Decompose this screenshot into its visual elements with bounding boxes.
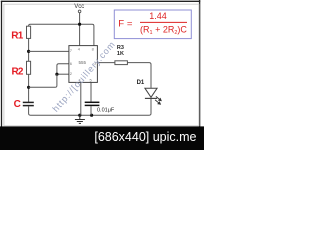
- wire pin4 drop: [79, 24, 81, 45]
- node pin2 junction: [55, 73, 58, 76]
- svg-text:R3: R3: [117, 45, 124, 51]
- svg-text:R1: R1: [11, 31, 23, 42]
- outer dark frame top: [1, 0, 200, 2]
- formula box: [114, 10, 191, 39]
- node ground junction: [78, 114, 81, 117]
- formula fraction bar: [140, 21, 187, 23]
- LED D1: [145, 88, 157, 98]
- sheet border: [4, 4, 199, 126]
- wire C bottom to ground rail: [29, 99, 151, 116]
- resistor R1: [27, 26, 31, 38]
- capacitor C3 0.01uF: [85, 102, 100, 105]
- svg-text:Vcc: Vcc: [74, 4, 84, 10]
- wire pin2 to R2-C junction: [29, 74, 57, 87]
- svg-text:1.44: 1.44: [149, 11, 167, 21]
- wire pin6 bracket: [57, 64, 69, 74]
- capacitor C: [23, 102, 34, 105]
- outer dark frame left: [1, 1, 3, 127]
- svg-text:D1: D1: [137, 80, 145, 86]
- LED arrows: [155, 96, 161, 104]
- resistor R3: [115, 61, 128, 65]
- resistor R2: [27, 61, 31, 74]
- wire R1-R2: [28, 38, 30, 61]
- ground: [75, 115, 85, 123]
- svg-text:C: C: [14, 99, 21, 110]
- svg-text:(R1 + 2R2)C: (R1 + 2R2)C: [140, 25, 187, 37]
- wire R3 to LED: [127, 63, 151, 88]
- op-amp U1 555 IC box: [69, 46, 98, 83]
- node Vcc junction: [78, 23, 81, 26]
- wire pin5 to cap: [90, 82, 92, 101]
- wire R2-C: [28, 74, 30, 102]
- node R1-R2 junction: [27, 50, 30, 53]
- wire Vcc stem: [79, 13, 81, 25]
- svg-text:R2: R2: [12, 67, 24, 78]
- svg-text:555: 555: [79, 60, 87, 65]
- wire cap to rail: [90, 106, 92, 115]
- svg-text:[686x440] upic.me: [686x440] upic.me: [94, 130, 196, 144]
- wire pin2: [57, 73, 69, 75]
- svg-text:F =: F =: [118, 18, 133, 29]
- wire Vcc rail: [29, 24, 94, 45]
- svg-text:0.01μF: 0.01μF: [97, 107, 115, 113]
- outer dark frame right: [199, 0, 201, 127]
- node R2-C junction: [27, 86, 30, 89]
- wire pin1 to ground: [80, 82, 82, 115]
- wire pin3 out: [97, 62, 115, 64]
- Vcc terminal circle: [78, 10, 81, 13]
- bottom bar: [0, 126, 204, 150]
- svg-text:1K: 1K: [117, 51, 124, 57]
- node bypass cap junction: [90, 114, 93, 117]
- wire pin7: [29, 50, 69, 52]
